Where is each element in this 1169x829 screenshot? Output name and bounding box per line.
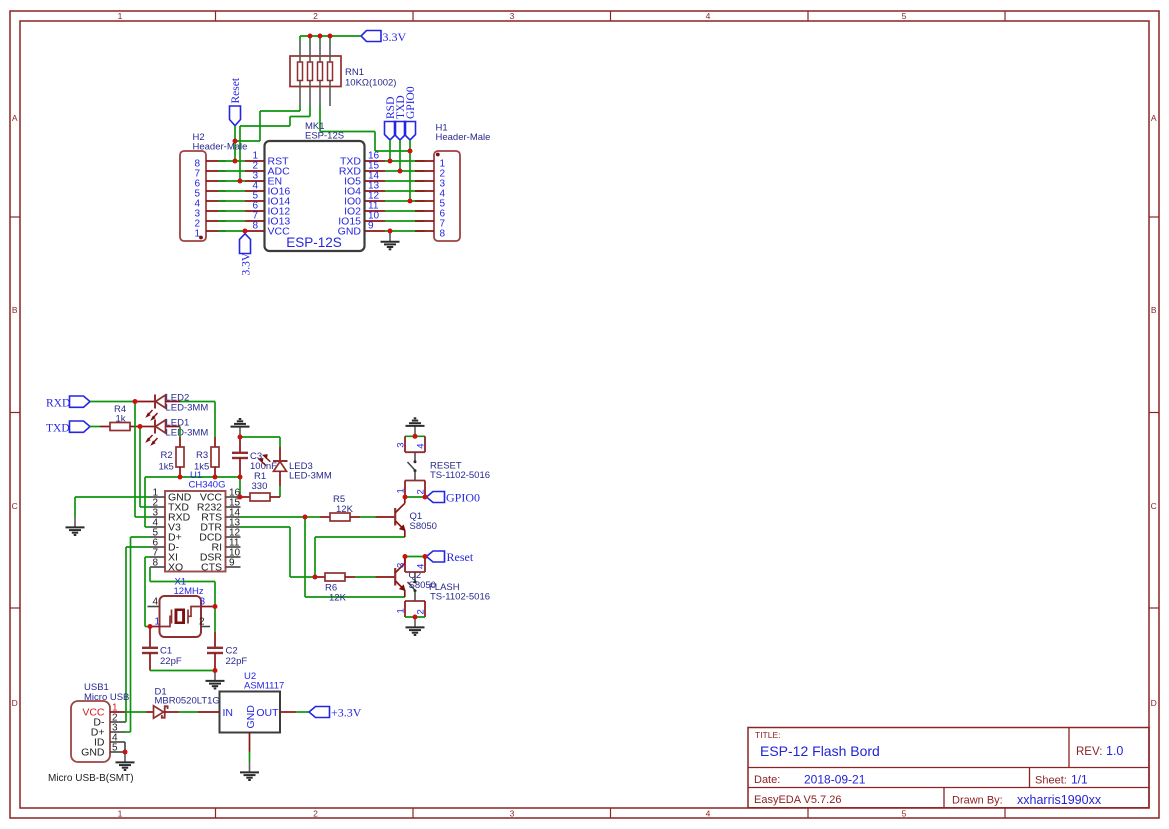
header H2 Header-Male (180, 132, 247, 241)
ground C3 top (231, 419, 250, 437)
wire GPIO0 flag to IO0 row (409, 140, 411, 201)
svg-text:MBR0520LT1G: MBR0520LT1G (155, 696, 220, 707)
wire U1 RTS to R5 (241, 516, 306, 518)
svg-text:RN1: RN1 (345, 67, 364, 78)
regulator U2 ASM1117 (198, 671, 296, 752)
svg-text:LED-3MM: LED-3MM (289, 471, 332, 482)
wire Q1 emitter to R6 junction (315, 537, 405, 577)
net flag 3.3V top (361, 30, 407, 44)
svg-text:2018-09-21: 2018-09-21 (804, 773, 866, 787)
svg-text:GPIO0: GPIO0 (446, 491, 480, 505)
capacitor C2 22pF (207, 607, 247, 671)
junction R2 / VCC rail (178, 475, 183, 480)
svg-text:D: D (12, 698, 18, 708)
wire D1 to U2 IN (179, 711, 199, 713)
wire Reset flag to RST row (234, 126, 236, 161)
junction Q2 collector / FLASH pin3 (403, 554, 408, 559)
net flag +3.3V (309, 706, 362, 720)
title block (748, 728, 1149, 808)
svg-text:TS-1102-5016: TS-1102-5016 (430, 470, 490, 481)
net flag Reset top (230, 77, 243, 126)
svg-text:5: 5 (902, 11, 907, 21)
transistor Q2 S8050 (376, 557, 436, 598)
svg-text:TS-1102-5016: TS-1102-5016 (430, 592, 490, 603)
junction C3 top (238, 435, 243, 440)
junction Reset / RN1 pin1 (233, 139, 238, 144)
net flag GPIO0 right (427, 491, 481, 505)
junction RESET switch top (413, 434, 418, 439)
svg-text:A: A (1151, 113, 1157, 123)
svg-text:RXD: RXD (46, 398, 70, 410)
svg-text:Drawn By:: Drawn By: (952, 795, 1003, 807)
ground C1 C2 (206, 671, 225, 689)
junction RN1 pin4 / 3.3V (328, 34, 333, 39)
junction R5 left (303, 515, 308, 520)
svg-text:R3: R3 (196, 450, 208, 461)
svg-text:Sheet:: Sheet: (1035, 775, 1067, 787)
resistor R4 1k (100, 404, 140, 431)
svg-text:3: 3 (510, 11, 515, 21)
module MK1 ESP-12S (245, 121, 385, 251)
frame column numbers top (118, 11, 907, 21)
junction GPIO0 / RN1 pin3 (408, 149, 413, 154)
net flag Reset right (427, 550, 474, 564)
wires H2 to ESP rows (218, 161, 245, 231)
svg-text:CTS: CTS (201, 562, 222, 574)
junction TXD / RXD row (398, 169, 403, 174)
wire C1 to C2 bottom (150, 670, 215, 672)
wire LED2 to R3 (180, 402, 215, 438)
frame column ticks bottom (216, 808, 1006, 818)
wire RN1 pin3 to GPIO0 net (320, 106, 410, 151)
svg-text:1k: 1k (116, 414, 126, 425)
svg-text:ESP-12S: ESP-12S (286, 235, 342, 250)
svg-text:C: C (12, 501, 18, 511)
wire U1 DTR to R6 net (241, 527, 316, 577)
svg-text:Reset: Reset (447, 550, 474, 564)
wire U1 D- to USB (125, 547, 150, 722)
junction 3.3V / VCC row (243, 229, 248, 234)
resistor R5 12K (305, 494, 376, 521)
capacitor C3 100nF (232, 437, 277, 477)
junction X1 pin1 / C1 (148, 624, 153, 629)
svg-text:2: 2 (416, 609, 427, 614)
IC U1 CH340G (150, 470, 241, 574)
wire U1 XO to X1 pin3 (150, 567, 215, 607)
junction RN1 pin2 / 3.3V (308, 34, 313, 39)
svg-text:1.0: 1.0 (1106, 744, 1123, 758)
frame row ticks right (1149, 217, 1159, 608)
wire RN1 pin2 drop (309, 36, 311, 41)
svg-text:12K: 12K (329, 593, 347, 604)
svg-text:Date:: Date: (754, 774, 780, 786)
frame column ticks top (216, 11, 1006, 21)
frame row letters left (12, 113, 18, 708)
svg-text:5: 5 (112, 742, 118, 753)
svg-text:8: 8 (152, 557, 158, 568)
svg-text:xxharris1990xx: xxharris1990xx (1017, 793, 1102, 807)
svg-text:3: 3 (396, 563, 407, 568)
svg-text:Header-Male: Header-Male (436, 132, 491, 143)
svg-text:D: D (1151, 698, 1157, 708)
svg-text:1: 1 (396, 488, 407, 493)
wire U2 GND to ground (249, 752, 251, 763)
junction GND row ESP (388, 229, 393, 234)
diode D1 MBR0520LT1G (146, 687, 220, 719)
net flag RXD left (46, 396, 90, 410)
svg-text:12K: 12K (336, 504, 354, 515)
svg-text:LED-3MM: LED-3MM (166, 403, 209, 414)
svg-text:9: 9 (368, 221, 374, 232)
svg-text:1/1: 1/1 (1071, 773, 1088, 787)
svg-text:A: A (12, 113, 18, 123)
svg-text:9: 9 (229, 557, 235, 568)
wire TXD down to U1 pin2 (140, 427, 150, 508)
svg-text:C1: C1 (160, 646, 172, 657)
ground USB (116, 752, 135, 770)
svg-text:4: 4 (706, 11, 711, 21)
svg-text:4: 4 (416, 444, 427, 449)
junction R4 / LED1 (138, 424, 143, 429)
svg-text:+3.3V: +3.3V (331, 706, 362, 720)
junction RXD flag / LED2 (133, 399, 138, 404)
svg-text:22pF: 22pF (226, 656, 248, 667)
net flag TXD left (46, 421, 90, 435)
wire RSD to TXD row (389, 140, 391, 161)
label Micro USB-B(SMT) (48, 773, 134, 784)
VCC rail y477 (145, 477, 240, 527)
svg-text:10KΩ(1002): 10KΩ(1002) (345, 78, 396, 89)
svg-text:XO: XO (168, 562, 183, 574)
wire LED1 to R2 (179, 427, 181, 438)
crystal X1 12MHz (148, 577, 216, 638)
net flag GPIO0 top (405, 86, 418, 140)
svg-text:GND: GND (245, 705, 257, 729)
svg-text:ASM1117: ASM1117 (244, 681, 284, 692)
capacitor C1 22pF (142, 627, 182, 671)
junction FLASH pin4 / Reset (423, 554, 428, 559)
svg-text:REV:: REV: (1076, 746, 1102, 758)
ground ESP GND (381, 231, 400, 249)
svg-text:TXD: TXD (46, 423, 70, 435)
svg-text:CH340G: CH340G (189, 480, 226, 491)
svg-text:8: 8 (252, 221, 258, 232)
resistor R1 330 (240, 471, 280, 501)
wire TXD flag to R4 (90, 426, 100, 428)
svg-text:1: 1 (118, 11, 123, 21)
wire TXD flag to RXD row (399, 140, 401, 171)
junction Reset / RST row (233, 159, 238, 164)
svg-text:Micro USB-B(SMT): Micro USB-B(SMT) (48, 773, 134, 784)
ground U1 pin1 (66, 517, 85, 535)
wire U2 OUT to 3.3V flag (296, 711, 309, 713)
svg-text:4: 4 (416, 564, 427, 569)
svg-text:3: 3 (396, 443, 407, 448)
svg-text:S8050: S8050 (410, 521, 437, 532)
net flag TXD mid (395, 95, 408, 140)
wire RN1 pin1 drop (299, 36, 301, 41)
svg-text:2: 2 (313, 809, 318, 819)
junction GPIO0 / IO0 row (408, 199, 413, 204)
junction R6 left (313, 575, 318, 580)
svg-text:EasyEDA V5.7.26: EasyEDA V5.7.26 (754, 794, 841, 806)
resistor R3 1k5 (194, 437, 219, 477)
wire RN1 pin1 to Reset net (235, 106, 300, 141)
net flag RSD (385, 97, 398, 140)
wire RN1 pin3 drop (319, 36, 321, 41)
junction X1 pin3 / C2 (213, 604, 218, 609)
svg-text:2: 2 (416, 489, 427, 494)
wire gnd to LED3 top (240, 437, 280, 447)
switch RESET TS-1102-5016 (396, 436, 491, 497)
LED3 LED-3MM (259, 447, 332, 486)
LED2 LED-3MM (135, 393, 208, 420)
net flag 3.3V at H2 pin1 (240, 234, 253, 276)
connector USB1 Micro USB (71, 682, 129, 762)
svg-text:3: 3 (510, 809, 515, 819)
wire LED3 to R1 (279, 486, 281, 497)
junction U1 VCC pin (238, 495, 243, 500)
svg-text:3.3V: 3.3V (383, 30, 407, 44)
ground RESET switch top (406, 418, 425, 436)
LED1 LED-3MM (140, 418, 208, 445)
frame row ticks left (10, 217, 20, 608)
svg-text:5: 5 (902, 809, 907, 819)
svg-text:B: B (1151, 305, 1157, 315)
svg-text:330: 330 (252, 481, 268, 492)
resistor network RN1 10K(1002) (290, 41, 396, 106)
junction R3 / VCC rail (213, 475, 218, 480)
svg-text:4: 4 (153, 597, 159, 608)
frame column numbers bottom (118, 809, 907, 819)
svg-text:4: 4 (706, 809, 711, 819)
resistor R6 12K (315, 573, 376, 604)
junction USB GND (123, 750, 128, 755)
header H1 Header-Male (415, 123, 490, 242)
svg-text:C2: C2 (226, 646, 238, 657)
junction FLASH bottom / ground (413, 615, 418, 620)
svg-text:1: 1 (396, 608, 407, 613)
svg-text:2: 2 (313, 11, 318, 21)
ground FLASH bottom (406, 617, 425, 635)
wire U1 XI to X1 pin1 (145, 557, 150, 627)
wire USB ID to GND (124, 742, 126, 752)
svg-text:ESP-12 Flash Bord: ESP-12 Flash Bord (760, 743, 880, 759)
svg-text:C: C (1151, 501, 1157, 511)
wire U1 GND to ground (75, 497, 150, 517)
svg-text:GND: GND (81, 747, 105, 759)
junction C2 bottom / ground (213, 668, 218, 673)
svg-text:GPIO0: GPIO0 (405, 86, 417, 119)
junction Q1 collector / RESET pin1 (403, 495, 408, 500)
switch FLASH TS-1102-5016 (396, 557, 491, 618)
wire RXD flag to LED2 (90, 401, 135, 403)
svg-text:2: 2 (199, 617, 205, 628)
junction RSD / TXD row (388, 159, 393, 164)
ground U2 (240, 762, 259, 780)
svg-text:TITLE:: TITLE: (755, 730, 781, 740)
wire U1 D+ to USB (125, 537, 150, 732)
junction EN row / RN1 pin2 (238, 179, 243, 184)
wire RXD down to U1 pin3 (135, 402, 150, 518)
junction RESET pin2 / GPIO0 (423, 495, 428, 500)
transistor Q1 S8050 (376, 497, 437, 537)
junction RN1 pin3 / 3.3V (318, 34, 323, 39)
wire 3.3V rail top (300, 35, 361, 37)
svg-text:IN: IN (223, 707, 234, 719)
svg-text:B: B (12, 305, 18, 315)
svg-text:OUT: OUT (256, 707, 279, 719)
svg-text:1: 1 (118, 809, 123, 819)
svg-text:22pF: 22pF (160, 656, 182, 667)
svg-text:ESP-12S: ESP-12S (305, 131, 344, 142)
junction C3 / VCC rail (238, 475, 243, 480)
svg-text:R2: R2 (161, 450, 173, 461)
wire USB VCC to D1 (125, 711, 146, 713)
resistor R2 1k5 (159, 437, 185, 477)
wire RN1 pin4 drop (329, 36, 331, 41)
svg-text:1k5: 1k5 (159, 462, 174, 473)
svg-text:LED-3MM: LED-3MM (166, 428, 209, 439)
frame row letters right (1151, 113, 1157, 708)
svg-text:Reset: Reset (230, 77, 242, 103)
svg-text:3.3V: 3.3V (241, 252, 253, 275)
svg-text:8: 8 (440, 228, 446, 239)
wire RN1 pin2 to EN net (240, 106, 310, 181)
wire RTS down to Q2 emitter (305, 517, 405, 597)
wires ESP to H1 rows (385, 161, 425, 231)
